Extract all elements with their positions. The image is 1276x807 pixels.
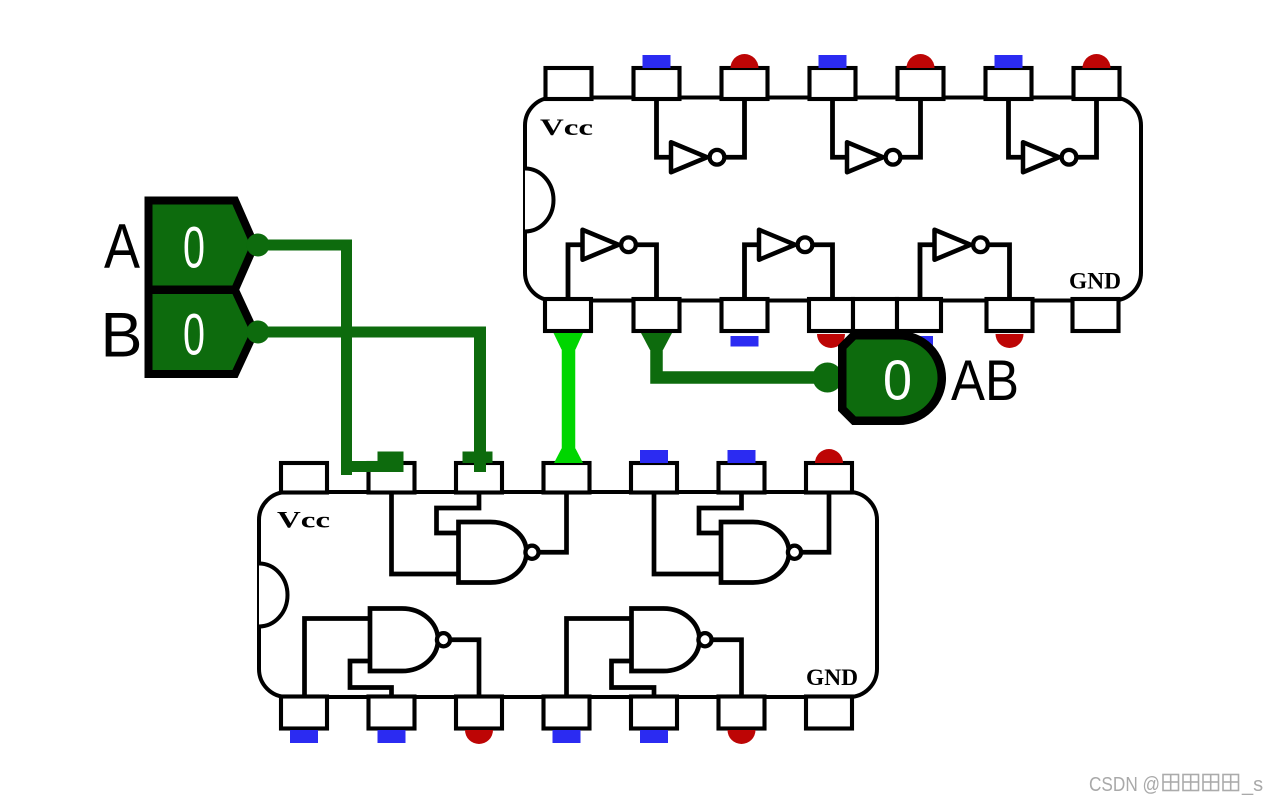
svg-text:CSDN @: CSDN @ [1089,774,1160,796]
svg-text:0: 0 [183,216,205,281]
svg-text:B: B [101,301,143,371]
svg-text:A: A [104,212,140,282]
svg-text:_s: _s [1241,774,1263,796]
svg-text:0: 0 [883,349,912,413]
svg-text:Vcc: Vcc [540,115,593,140]
svg-text:GND: GND [806,665,858,690]
svg-text:0: 0 [183,303,205,368]
svg-text:AB: AB [951,349,1019,413]
svg-text:GND: GND [1069,269,1121,294]
svg-text:Vcc: Vcc [277,508,330,533]
